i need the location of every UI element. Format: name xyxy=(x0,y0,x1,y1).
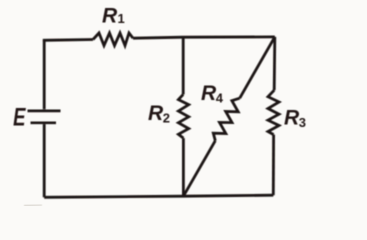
wire bottom xyxy=(44,195,273,197)
resistor R3 xyxy=(268,90,279,134)
resistor R1 xyxy=(93,33,133,46)
svg-text:E: E xyxy=(13,103,26,131)
svg-text:R: R xyxy=(201,82,217,105)
svg-text:4: 4 xyxy=(216,90,224,105)
svg-text:R: R xyxy=(148,102,164,125)
wire right branch upper xyxy=(273,37,276,90)
wire diagonal lower lead of R4 xyxy=(183,141,215,197)
svg-text:R: R xyxy=(102,5,118,28)
wire top-left to R1 xyxy=(44,40,93,42)
resistor R2 xyxy=(178,94,188,138)
wire R1 to top-right corner xyxy=(133,37,275,38)
wire diagonal upper lead of R4 xyxy=(240,37,275,98)
svg-text:2: 2 xyxy=(163,110,170,125)
wire left branch upper (E top lead) xyxy=(43,40,46,109)
wire middle branch upper xyxy=(182,37,185,94)
battery E top plate xyxy=(28,110,61,113)
wire left branch lower (E bottom lead) xyxy=(43,124,46,197)
resistor R4 xyxy=(213,98,239,141)
svg-text:R: R xyxy=(284,107,300,130)
svg-text:3: 3 xyxy=(299,115,306,130)
faint scan smudge bottom-left xyxy=(24,204,42,207)
wire middle branch lower xyxy=(182,138,185,196)
svg-text:1: 1 xyxy=(118,11,125,26)
wire right branch lower xyxy=(272,135,275,196)
battery E bottom plate xyxy=(31,121,57,124)
